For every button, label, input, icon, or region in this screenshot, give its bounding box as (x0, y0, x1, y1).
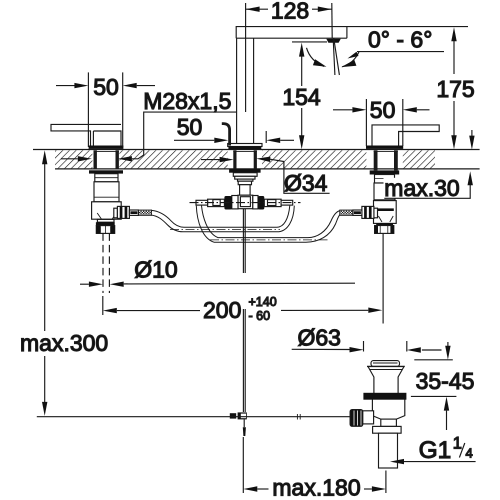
spout escutcheon (228, 144, 262, 147)
left handle lever (51, 124, 121, 146)
drain body (372, 400, 404, 420)
drain seal band (363, 393, 406, 400)
dim 200 +140/-60 (103, 295, 383, 323)
svg-text:200: 200 (203, 297, 241, 323)
svg-text:max.300: max.300 (20, 330, 108, 356)
svg-text:max.180: max.180 (272, 475, 360, 500)
svg-text:35-45: 35-45 (416, 368, 475, 394)
svg-text:175: 175 (436, 76, 474, 102)
label M28x1,5 (61, 88, 237, 161)
svg-text:G1: G1 (419, 437, 452, 464)
right valve shank (374, 150, 398, 170)
spout riser pipe (237, 38, 254, 143)
dim 154 (282, 43, 321, 150)
nipple centerline (190, 202, 301, 204)
spout lower stack (233, 173, 257, 196)
manifold right nipple (253, 196, 293, 210)
svg-text:0° - 6°: 0° - 6° (368, 27, 432, 53)
angle arc right (341, 52, 359, 67)
manifold left nipple (196, 196, 238, 210)
right valve compression nut (375, 226, 394, 234)
drain knurled nut (350, 410, 373, 427)
flex hose right-to-left (196, 206, 339, 243)
right valve mounting nut (370, 170, 400, 174)
left handle escutcheon (89, 146, 123, 149)
spout horizontal arm (236, 27, 468, 39)
right valve body (374, 175, 397, 224)
svg-text:Ø63: Ø63 (298, 324, 341, 350)
drain tailpipe (373, 419, 402, 468)
right valve lower seal band (376, 223, 393, 226)
pop-up lift rod hook (222, 124, 230, 146)
drain centre extension line (382, 234, 384, 324)
drain dim 63 extension lines (364, 341, 407, 352)
supply pipe dashed (103, 233, 109, 293)
dim max.30 (384, 130, 475, 201)
outlet plane line (292, 41, 327, 43)
dim 128 (246, 0, 333, 112)
countertop hatched section (33, 150, 480, 169)
dim max.180 (243, 437, 386, 500)
dim 35-45 (411, 342, 475, 430)
left valve lower collar and band (96, 219, 115, 225)
dim 50 right handle (333, 97, 430, 146)
svg-text:154: 154 (282, 84, 321, 110)
spout shank (233, 150, 257, 169)
dim 175 (436, 27, 474, 149)
drain funnel (367, 366, 405, 393)
angle arc left (307, 48, 327, 67)
dim 50 left handle (56, 72, 155, 147)
svg-text:max.30: max.30 (384, 175, 459, 201)
stream line 0deg (333, 39, 335, 75)
right valve side port (340, 206, 378, 218)
svg-text:4: 4 (466, 446, 473, 461)
dim max.300 (20, 150, 108, 416)
label 0-6 deg (348, 27, 445, 59)
flex hose left-to-right (152, 206, 295, 232)
pop-up pivot joint (230, 412, 247, 436)
svg-text:1: 1 (453, 435, 462, 453)
left valve body (92, 174, 122, 220)
svg-text:128: 128 (271, 0, 309, 23)
dim 50 spout base (174, 114, 294, 143)
supply manifold block (238, 195, 253, 209)
dim diameter 10 (80, 257, 355, 287)
svg-text:+140: +140 (249, 295, 277, 309)
svg-text:M28x1,5: M28x1,5 (143, 88, 231, 114)
svg-text:Ø10: Ø10 (134, 257, 177, 283)
svg-text:50: 50 (93, 74, 119, 100)
left valve side port (114, 206, 152, 218)
svg-text:50: 50 (370, 97, 396, 123)
mousseur outlet (326, 39, 341, 43)
left valve mounting nut (89, 170, 123, 173)
right handle lever (372, 125, 439, 146)
svg-text:Ø34: Ø34 (284, 170, 328, 196)
label G1 1/4 (390, 435, 476, 465)
svg-text:50: 50 (177, 114, 203, 140)
left valve compression nut (96, 226, 114, 234)
label diameter 63 (292, 324, 442, 352)
pop-up rod vertical (243, 209, 245, 412)
label diameter 34 (201, 157, 330, 196)
drain plug knob (371, 361, 400, 367)
svg-text:- 60: - 60 (249, 309, 271, 323)
stream line 6deg (334, 39, 340, 75)
left valve shank (94, 150, 119, 169)
spout mounting nut (229, 169, 261, 172)
right handle escutcheon (366, 146, 402, 149)
horizontal lever rod / reference plane (37, 414, 351, 420)
